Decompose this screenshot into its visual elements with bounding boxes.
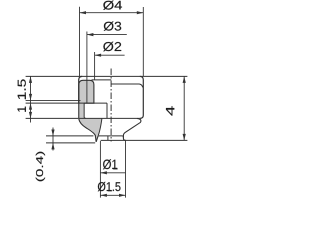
section fill: cone and lip finger: [79, 119, 102, 143]
part top edge with left/right extension y=76.4: [26, 75, 188, 77]
Ø3 dimension line: [87, 34, 127, 36]
lip finger inner edge: [96, 136, 98, 142]
right lip inner wall: [122, 136, 125, 138]
(0.4) text rotated: [36, 152, 45, 182]
thumb bottom line y=103.1 with left extension: [26, 102, 107, 104]
outer shell right edge: [140, 76, 144, 118]
Ø4 right arrow: [137, 11, 144, 14]
Ø1.5 text: [98, 182, 121, 191]
serif feet for 1 glyphs: [25, 95, 26, 99]
step line y=84 right half: [111, 84, 143, 87]
Ø1.5 right arrow: [119, 194, 126, 197]
1 top arrow: [29, 103, 32, 110]
throat inner wall: [98, 119, 102, 136]
Ø4 right extension line: [142, 7, 144, 76]
mouth-to-bottom connector line: [107, 136, 109, 141]
Ø2 text: [103, 42, 121, 52]
Ø3 left extension line: [86, 32, 88, 104]
4 top arrow: [183, 76, 186, 83]
Ø4 dimension line: [80, 12, 144, 14]
cone outer-left curve: [79, 119, 96, 142]
1.5 bottom arrow: [29, 94, 32, 101]
bottom line y=140.4 with right 4-dim extension: [101, 139, 188, 141]
Ø1.5 left extension line: [99, 141, 101, 198]
(0.4) bottom arrow outside: [51, 143, 54, 150]
outer shell left edge: [79, 76, 83, 80]
1.5 top arrow: [29, 76, 32, 83]
Ø4 left extension line: [79, 7, 81, 76]
centerline: [110, 69, 112, 142]
(0.4) top arrow outside: [51, 130, 54, 137]
Ø1 dimension line: [100, 172, 125, 174]
Ø4 text: [103, 1, 122, 10]
Ø1.5 dimension line: [100, 194, 125, 196]
Ø2 arrow: [95, 54, 102, 57]
1 text rotated: [18, 107, 26, 112]
step line y=80 left half: [92, 79, 112, 81]
1.5 text rotated: [18, 79, 26, 99]
(0.4) dimension line x=53: [52, 128, 54, 151]
shell bottom line y=118.4 with left 1-dim extension: [26, 117, 140, 119]
Ø3 text: [104, 22, 122, 31]
Ø1 text: [103, 159, 117, 169]
Ø1 left arrow: [100, 171, 107, 174]
1.5 extension line y=100.4: [26, 99, 81, 101]
section fill: neck wall: [79, 103, 84, 119]
mouth plane line y=135.9 with left (0.4) extension: [46, 135, 93, 137]
4 bottom arrow: [183, 134, 186, 141]
cavity right wall x=107: [106, 103, 108, 118]
1 bottom arrow: [29, 112, 32, 119]
neck outer edge: [78, 103, 80, 118]
right cone S-curve slant: [123, 118, 141, 140]
4 text rotated: [166, 106, 174, 115]
section fill: left wall (thumb): [79, 80, 94, 103]
Ø2 dimension line: [95, 54, 125, 56]
4 dimension line right: [183, 76, 185, 140]
Ø3 arrow: [87, 33, 94, 36]
cavity left wall x=84.15: [84, 103, 86, 118]
Ø2 left extension line: [94, 52, 96, 80]
Ø1.5 left arrow: [100, 194, 107, 197]
(0.4) bottom extension y=142.9: [46, 142, 95, 144]
Ø4 left arrow: [80, 11, 87, 14]
Ø1.5 right extension line: [125, 141, 127, 198]
left dimension line x=30.5 (1.5 and 1): [30, 76, 32, 122]
